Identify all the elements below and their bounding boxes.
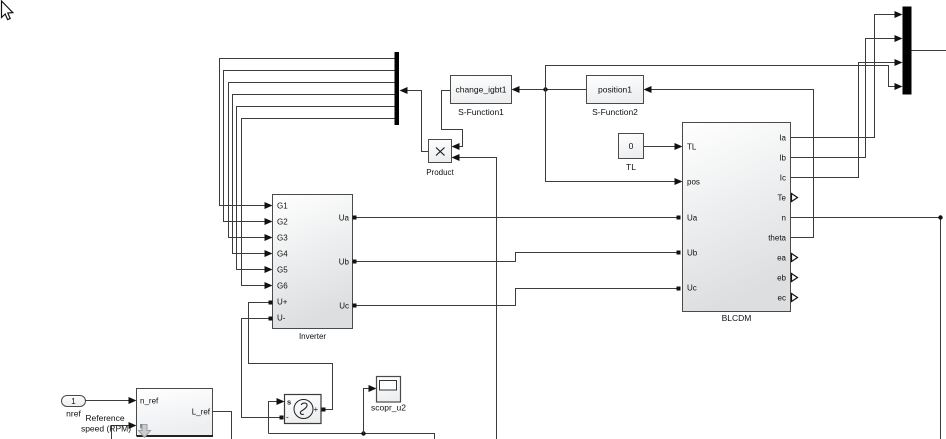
inport 1 nref (62, 396, 86, 407)
block scope scopr_u2 (377, 377, 401, 403)
wire BLCDM Ia to Mux2 input 1 (791, 15, 895, 138)
svg-text:1: 1 (71, 397, 76, 406)
block S-Function1 change_igbt1 (451, 76, 512, 104)
svg-text:Ua: Ua (687, 214, 698, 223)
block S-Function2 position1 (587, 76, 644, 104)
node junction position (543, 87, 547, 91)
wire junction up to scope input (364, 389, 369, 434)
svg-text:BLCDM: BLCDM (722, 313, 752, 323)
svg-text:n_ref: n_ref (140, 397, 159, 406)
svg-text:TL: TL (687, 143, 697, 152)
ghost drag arrow (139, 425, 151, 438)
block Reference speed (RPM) (137, 389, 213, 436)
wire demux out6 to Inverter G6 (242, 119, 395, 286)
wire demux out3 to Inverter G3 (229, 83, 395, 238)
svg-text:ea: ea (777, 254, 786, 263)
wire position1 output to junction (546, 89, 587, 91)
wire demux out1 to Inverter G1 (220, 59, 395, 206)
svg-text:eb: eb (777, 274, 786, 283)
svg-text:s: s (287, 398, 291, 407)
svg-text:Ia: Ia (779, 134, 786, 143)
wire change_igbt1 output to Product input 1 (442, 91, 463, 147)
svg-text:Inverter: Inverter (299, 332, 326, 341)
mouse cursor (2, 1, 13, 20)
wire Ub electrical Inverter to BLCDM (357, 253, 677, 262)
svg-text:-: - (286, 413, 289, 422)
svg-text:ec: ec (778, 294, 786, 303)
svg-text:nref: nref (66, 409, 81, 419)
wire demux out5 to Inverter G5 (237, 107, 395, 270)
wire from bottom to Product input 2 (460, 158, 497, 439)
svg-text:speed (RPM): speed (RPM) (81, 424, 131, 434)
port chevron Te (unconnected) (792, 194, 798, 202)
wire Ua electrical Inverter to BLCDM (357, 217, 677, 219)
svg-text:Ub: Ub (687, 249, 698, 258)
block Product (429, 140, 452, 163)
svg-text:n: n (782, 214, 786, 223)
wire junction down to BLCDM pos (546, 90, 675, 182)
svg-text:L_ref: L_ref (192, 408, 211, 417)
mux Mux2 (top right bar) (903, 7, 912, 95)
wire junction up to Mux2 input 4 (546, 66, 895, 90)
block Inverter (273, 195, 353, 329)
svg-text:Product: Product (426, 168, 454, 177)
svg-text:position1: position1 (598, 85, 632, 95)
svg-text:U+: U+ (277, 298, 288, 307)
wire BLCDM Ib to Mux2 input 2 (791, 39, 895, 158)
wire junction to change_igbt1 input (520, 89, 546, 91)
svg-text:theta: theta (768, 234, 786, 243)
wire U- electrical from source minus terminal (242, 319, 280, 418)
wire BLCDM Ic to Mux2 input 3 (791, 63, 895, 178)
svg-text:Ua: Ua (339, 214, 350, 223)
svg-text:+: + (314, 405, 319, 414)
node junction n (938, 215, 942, 219)
block controlled voltage source (285, 395, 322, 424)
block BLCDM (683, 123, 791, 312)
svg-text:U-: U- (277, 314, 286, 323)
port chevron eb (unconnected) (792, 274, 798, 282)
svg-text:S-Function2: S-Function2 (592, 107, 638, 117)
wire Uc electrical Inverter to BLCDM (357, 289, 677, 306)
svg-text:G5: G5 (277, 266, 288, 275)
svg-text:S-Function1: S-Function1 (458, 107, 504, 117)
svg-text:G2: G2 (277, 218, 288, 227)
svg-text:G3: G3 (277, 234, 288, 243)
wire L_ref output down (213, 412, 232, 439)
wire s input of voltage source (269, 402, 277, 434)
wire bottom feedback line (269, 434, 435, 439)
svg-text:Uc: Uc (339, 302, 349, 311)
wire nref to n_ref input (86, 400, 129, 402)
svg-text:G1: G1 (277, 202, 288, 211)
svg-text:G6: G6 (277, 282, 288, 291)
port chevron ea (unconnected) (792, 254, 798, 262)
wire U+ electrical from source plus terminal (249, 303, 333, 410)
svg-text:TL: TL (626, 162, 636, 172)
svg-text:change_igbt1: change_igbt1 (455, 85, 506, 95)
svg-text:Ic: Ic (780, 174, 786, 183)
node junction scope tap (361, 431, 365, 435)
svg-text:G4: G4 (277, 250, 288, 259)
block TL constant 0 (619, 134, 644, 159)
wire BLCDM n output down right side (791, 218, 941, 439)
port chevron ec (unconnected) (792, 294, 798, 302)
wire TL to BLCDM TL input (644, 146, 675, 148)
svg-text:pos: pos (687, 178, 700, 187)
svg-text:Ub: Ub (339, 258, 350, 267)
mux Mux1 (gate demux bar, flipped) (395, 52, 400, 125)
svg-text:Te: Te (778, 194, 787, 203)
svg-text:Reference: Reference (85, 413, 124, 423)
wire demux out2 to Inverter G2 (224, 71, 395, 222)
wire from bottom to n input (112, 426, 129, 439)
wire Mux2 output (912, 50, 946, 52)
svg-text:Uc: Uc (687, 284, 697, 293)
wire demux out4 to Inverter G4 (233, 95, 395, 254)
svg-text:scopr_u2: scopr_u2 (371, 403, 406, 413)
wire Product output to mux input (408, 91, 429, 152)
svg-text:Ib: Ib (779, 154, 786, 163)
wire BLCDM theta to position1 input (652, 90, 814, 238)
svg-text:0: 0 (629, 141, 634, 151)
